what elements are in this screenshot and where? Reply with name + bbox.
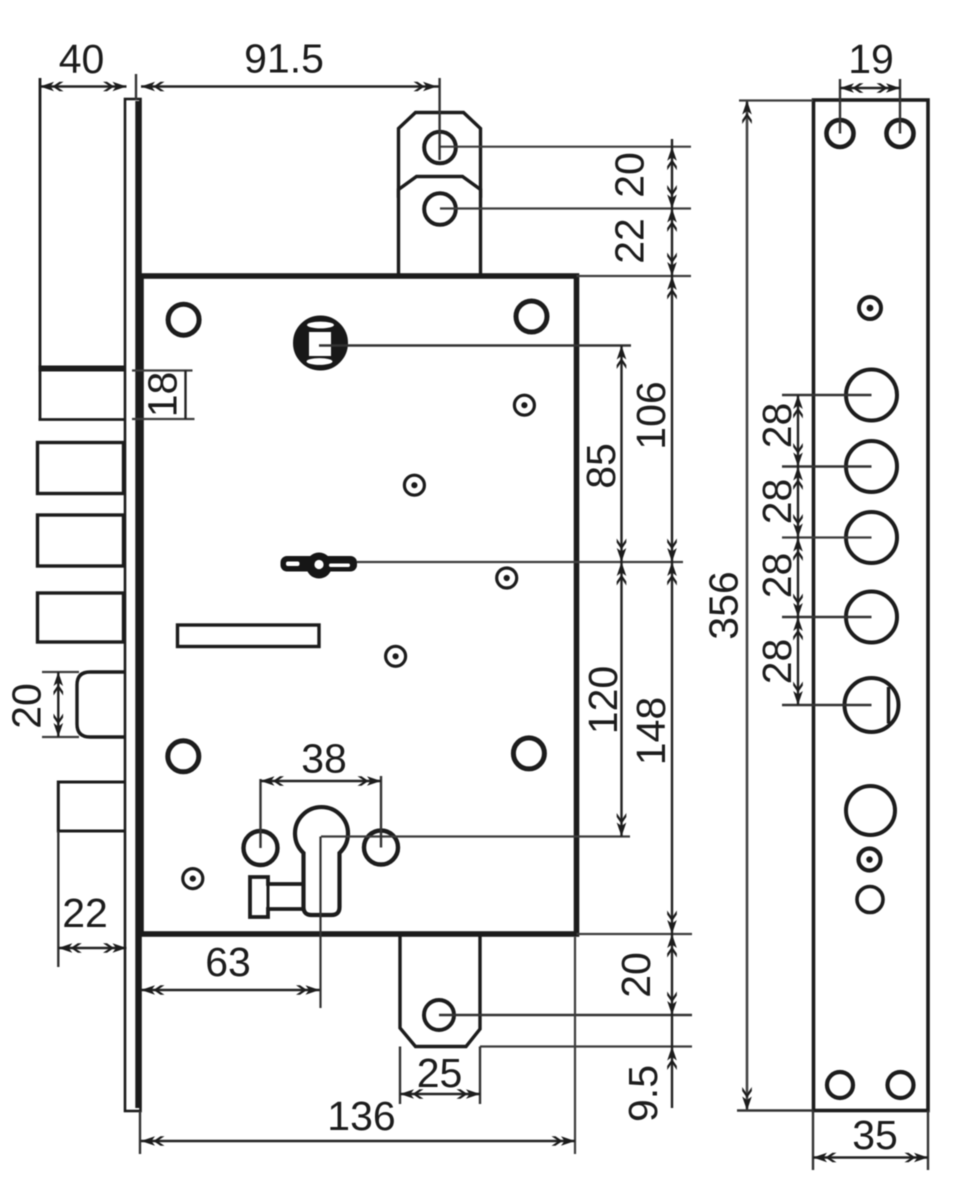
top latch upper hole — [424, 132, 456, 164]
label 28 d — [754, 639, 800, 685]
label 85 — [578, 443, 624, 489]
square bolt A — [38, 443, 124, 494]
ext 38 left — [259, 779, 261, 848]
svg-text:18: 18 — [140, 372, 186, 418]
label 120 — [580, 666, 626, 734]
arrows 106 — [667, 276, 677, 300]
spindle bar — [281, 556, 358, 572]
svg-text:20: 20 — [607, 152, 653, 198]
ext cylinder centerline — [319, 837, 321, 1009]
label 106 — [628, 381, 674, 449]
label 148 — [628, 697, 674, 765]
svg-text:22: 22 — [607, 218, 653, 264]
ext 35 right — [927, 1111, 929, 1171]
svg-text:28: 28 — [754, 639, 800, 685]
svg-text:356: 356 — [701, 571, 747, 639]
dim column V2 — [620, 346, 622, 837]
arrows 28 b — [793, 467, 803, 491]
screw boss S1 — [514, 395, 534, 415]
plate small hole — [857, 887, 883, 913]
svg-text:136: 136 — [327, 1093, 395, 1139]
arrows dim 91.5 — [141, 82, 165, 92]
dim 18 line — [184, 371, 186, 420]
arrows 22 top — [667, 209, 677, 233]
euro cylinder keyhole — [295, 807, 348, 915]
top latch lower hole — [424, 193, 456, 225]
arrows 120 — [617, 562, 627, 586]
plate bottom ring left — [827, 1072, 853, 1098]
screw boss S4 — [386, 646, 406, 666]
dim 35 line — [813, 1156, 928, 1158]
svg-text:25: 25 — [417, 1050, 463, 1096]
ext plate hole 5 — [782, 704, 872, 706]
follower top highlight — [307, 322, 334, 329]
dim 28 column — [797, 395, 799, 705]
stop slot plate — [178, 625, 320, 647]
svg-text:22: 22 — [62, 890, 108, 936]
ext 19 right — [899, 79, 901, 134]
ext bottom latch tip line — [480, 1045, 692, 1047]
plate hole 1 — [846, 370, 897, 421]
faceplate bold front edge — [135, 101, 141, 1108]
deadbolt box2 bottom edge — [39, 418, 128, 421]
ext upper latch hole line — [440, 146, 691, 148]
arrows 148 — [667, 562, 677, 586]
arrows 85 — [617, 346, 627, 370]
ext 22 guard left — [57, 831, 59, 967]
svg-text:85: 85 — [578, 443, 624, 489]
strike plate — [814, 100, 929, 1111]
plate screw top — [859, 297, 881, 319]
plate top ring left — [827, 120, 854, 147]
cylinder cam arm — [250, 877, 304, 917]
label 9.5 — [620, 1065, 666, 1122]
dim 25 line — [400, 1093, 480, 1095]
deadbolt box top left edge line — [39, 78, 42, 420]
ext lower latch hole line — [440, 207, 691, 209]
body corner hole bottom-right — [513, 738, 544, 769]
dim column V1 — [671, 139, 673, 1108]
top latch lower piece — [399, 177, 481, 279]
ext plate hole 1 — [782, 394, 872, 396]
ext 19 left — [839, 79, 841, 134]
screw boss S2 — [404, 475, 424, 495]
screw boss S5 — [183, 869, 203, 889]
plate hole 5 — [845, 678, 899, 732]
ext faceplate top tick — [135, 74, 137, 100]
svg-text:28: 28 — [754, 553, 800, 599]
ext body bottom line — [577, 933, 693, 935]
arrows dim 25 — [400, 1089, 424, 1099]
ext 136 left — [139, 1111, 141, 1154]
spindle hub — [306, 553, 332, 579]
ext 136 right — [574, 937, 576, 1154]
square follower dark disc — [294, 317, 347, 370]
label 20 bolt — [4, 683, 50, 729]
arrows dim 63 — [141, 985, 165, 995]
svg-text:106: 106 — [628, 381, 674, 449]
svg-text:91.5: 91.5 — [244, 36, 324, 82]
arrows dim 136 — [141, 1136, 165, 1146]
svg-text:38: 38 — [301, 736, 347, 782]
arrows dim 20 bolt — [54, 672, 64, 696]
label 20 top — [607, 152, 653, 198]
arrows 28 d — [793, 617, 803, 641]
svg-text:20: 20 — [4, 683, 50, 729]
ext 38 right — [380, 776, 382, 848]
label 28 a — [754, 403, 800, 449]
plate hole 2 — [846, 441, 897, 492]
dim 136 line — [141, 1140, 575, 1142]
spindle right slot — [329, 564, 350, 568]
plate bottom ring right — [888, 1072, 914, 1098]
top latch upper piece — [399, 113, 481, 197]
ext 18 top — [132, 369, 193, 371]
label 28 b — [754, 479, 800, 525]
ext plate hole 3 — [782, 536, 872, 538]
svg-text:148: 148 — [628, 697, 674, 765]
arrows 28 c — [793, 538, 803, 562]
arrows 28 a — [793, 395, 803, 419]
rounded auxiliary bolt — [77, 672, 127, 737]
spindle left slot — [286, 562, 300, 567]
bottom latch hole — [424, 1000, 454, 1030]
plate hole 4 — [846, 592, 897, 643]
dim 40 line — [40, 85, 127, 87]
square bolt C — [38, 593, 124, 642]
label 22 top — [607, 218, 653, 264]
label 28 c — [754, 553, 800, 599]
arrows 35 — [813, 1153, 837, 1163]
arrows 20 top — [667, 147, 677, 171]
follower square hole — [309, 332, 331, 356]
dim 91.5 line — [141, 85, 439, 87]
ext bottom latch hole line — [439, 1014, 692, 1016]
label 356 — [701, 571, 747, 639]
svg-text:40: 40 — [59, 36, 105, 82]
svg-text:9.5: 9.5 — [620, 1065, 666, 1122]
spindle hub hole — [314, 560, 323, 569]
lower guard box — [58, 782, 126, 831]
follower bottom highlight — [307, 358, 333, 365]
ext 20 bolt bottom — [42, 736, 79, 738]
svg-text:28: 28 — [754, 479, 800, 525]
dim 20 bolt line — [57, 672, 59, 737]
arrows dim 40 — [40, 82, 64, 92]
arrows dim 38 — [261, 776, 285, 786]
body corner hole top-right — [516, 301, 547, 332]
ext body top line — [577, 275, 692, 277]
ext 25 right — [479, 1047, 481, 1105]
svg-text:120: 120 — [580, 666, 626, 734]
plate hole 6 — [846, 786, 895, 835]
arrow 9.5 outside — [667, 1047, 677, 1071]
square bolt B — [38, 515, 124, 566]
ext plate hole 4 — [782, 616, 872, 618]
body corner hole top-left — [168, 304, 199, 335]
ext 35 left — [812, 1111, 814, 1171]
dim 38 line — [261, 780, 382, 782]
ext spindle line — [357, 561, 683, 563]
dim 22 guard line — [58, 947, 126, 949]
arrows 356 — [742, 101, 752, 125]
arrows 20 bottom — [667, 934, 677, 958]
arrows dim 22 guard — [58, 943, 82, 953]
bottom latch piece — [400, 932, 480, 1047]
screw boss S3 — [497, 568, 517, 588]
plate hole 5 chord — [887, 687, 890, 724]
svg-text:28: 28 — [754, 403, 800, 449]
lock body case — [141, 276, 577, 934]
faceplate — [125, 99, 141, 1111]
plate hole 3 — [846, 512, 897, 563]
cam arm inner line — [267, 884, 270, 909]
dim 63 line — [141, 989, 320, 991]
ext plate top — [739, 99, 813, 101]
dim 356 line — [746, 101, 749, 1111]
dim 19 line — [840, 87, 900, 89]
ext cylinder line — [321, 835, 630, 837]
svg-text:19: 19 — [848, 36, 894, 82]
plate screw bottom — [859, 849, 881, 871]
svg-text:20: 20 — [613, 952, 659, 998]
cylinder fixing circle right — [364, 831, 398, 865]
ext top latch centerline — [438, 78, 440, 160]
ext 18 bottom — [132, 418, 195, 420]
ext plate hole 2 — [782, 465, 872, 467]
svg-text:35: 35 — [852, 1112, 898, 1158]
label 18 — [140, 372, 186, 418]
cylinder fixing circle left — [244, 831, 278, 865]
ext 20 bolt top — [42, 671, 79, 673]
svg-text:63: 63 — [205, 939, 251, 985]
body corner hole bottom-left — [168, 741, 199, 772]
ext follower line — [319, 344, 631, 347]
ext 25 left — [399, 1047, 401, 1105]
label 20 bottom — [613, 952, 659, 998]
ext plate bottom — [737, 1109, 813, 1111]
deadbolt box1 bottom bold edge — [39, 366, 128, 372]
plate top ring right — [887, 120, 914, 147]
arrows 19 — [840, 83, 864, 93]
